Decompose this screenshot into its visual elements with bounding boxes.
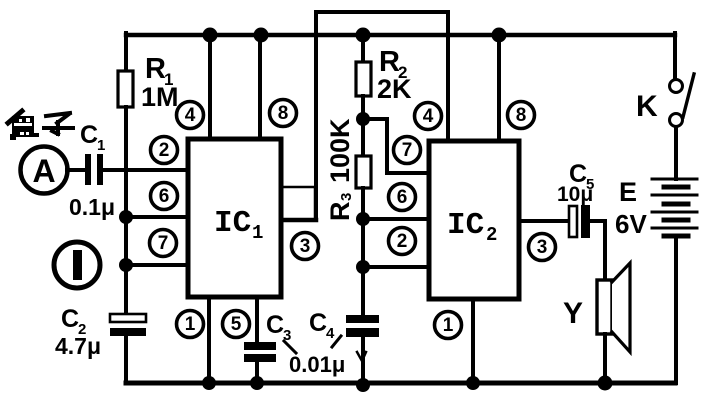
svg-text:R: R bbox=[325, 202, 355, 222]
capacitor C5 bbox=[569, 205, 590, 238]
wire to IC1 pin6 bbox=[126, 215, 188, 219]
svg-text:6V: 6V bbox=[615, 209, 647, 239]
wire pin3 stub upper bbox=[282, 187, 315, 220]
svg-text:2: 2 bbox=[159, 140, 170, 161]
wire C3 to ground bbox=[255, 361, 259, 383]
svg-text:6: 6 bbox=[159, 186, 170, 207]
svg-text:A: A bbox=[32, 153, 55, 189]
label C5 value 10u bbox=[557, 183, 593, 206]
svg-text:4: 4 bbox=[423, 106, 434, 127]
pin number 7 IC2 bbox=[394, 137, 421, 164]
svg-text:100K: 100K bbox=[325, 118, 355, 183]
wire top loop horizontal bbox=[316, 10, 448, 14]
svg-text:R: R bbox=[145, 53, 166, 85]
svg-text:8: 8 bbox=[278, 103, 289, 124]
label E value 6V bbox=[615, 209, 647, 239]
svg-text:E: E bbox=[619, 177, 637, 207]
wire battery to ground rail bbox=[674, 239, 678, 383]
wire bottom ground rail bbox=[126, 381, 675, 386]
label C3 C4 value 0.01u bbox=[289, 352, 345, 377]
node junction pin8 rail bbox=[254, 28, 269, 43]
svg-text:4: 4 bbox=[326, 325, 335, 342]
node junction C4 ground bbox=[356, 378, 370, 392]
label C1 value 0.1u bbox=[69, 194, 115, 220]
svg-text:10μ: 10μ bbox=[557, 183, 593, 206]
wire IC2 pin1 to ground bbox=[471, 299, 475, 383]
label Y bbox=[563, 297, 583, 330]
node junction pin6 net bbox=[356, 212, 370, 226]
node junction R2 rail bbox=[356, 28, 371, 43]
capacitor C1 bbox=[85, 154, 103, 185]
svg-text:1M: 1M bbox=[141, 82, 179, 112]
wire speaker to ground bbox=[603, 334, 607, 383]
wire top positive rail bbox=[126, 33, 675, 37]
node junction speaker ground bbox=[598, 376, 613, 391]
pin number 3 IC1 bbox=[292, 233, 319, 260]
wire R3 down to C4 bbox=[361, 188, 365, 315]
label C5 bbox=[569, 160, 594, 193]
svg-text:1: 1 bbox=[97, 137, 105, 154]
pin number 3 IC2 bbox=[529, 234, 556, 261]
svg-text:IC: IC bbox=[214, 206, 251, 241]
label E bbox=[619, 177, 637, 207]
pin number 2 IC1 bbox=[151, 137, 178, 164]
svg-text:IC: IC bbox=[447, 208, 484, 243]
svg-text:C: C bbox=[266, 311, 284, 339]
label K bbox=[636, 90, 658, 123]
svg-text:4.7μ: 4.7μ bbox=[55, 333, 101, 359]
wire C1 to IC1 pin2 bbox=[103, 168, 188, 172]
capacitor C3 bbox=[244, 342, 276, 362]
svg-text:2K: 2K bbox=[377, 74, 412, 104]
capacitor C4 bbox=[346, 315, 379, 337]
wire left vertical R1 to C2 bbox=[124, 107, 128, 315]
wire C5 to speaker bbox=[590, 221, 605, 280]
node junction IC2 pin8 rail bbox=[492, 28, 507, 43]
pin number 2 IC2 bbox=[389, 228, 416, 255]
node junction pin2 net bbox=[356, 260, 370, 274]
node junction pin4 rail bbox=[203, 28, 218, 43]
wire IC2 pin3 to C5 bbox=[519, 219, 570, 223]
wire IC2 pin8 to rail bbox=[497, 35, 501, 141]
label IC1 bbox=[214, 206, 263, 244]
svg-text:1: 1 bbox=[443, 315, 454, 336]
pin number 8 IC2 bbox=[508, 102, 535, 129]
pin number 6 IC1 bbox=[151, 183, 178, 210]
svg-text:K: K bbox=[636, 90, 658, 123]
node junction IC2 pin1 ground bbox=[466, 376, 480, 390]
label C3 bbox=[266, 311, 291, 344]
label C2 bbox=[61, 305, 86, 338]
svg-text:7: 7 bbox=[158, 233, 169, 254]
wire junction to IC2 pin7 bbox=[363, 119, 429, 173]
wire rail to switch bbox=[673, 33, 677, 80]
label C1 bbox=[80, 121, 105, 154]
wire IC1 pin1 to ground bbox=[207, 297, 211, 383]
svg-text:3: 3 bbox=[537, 237, 548, 258]
label C4 bbox=[309, 309, 335, 342]
IC U2 box bbox=[429, 141, 519, 299]
IC U1 box bbox=[188, 139, 281, 297]
label leader line C3 bbox=[284, 341, 296, 353]
svg-text:1: 1 bbox=[185, 314, 196, 335]
svg-text:0.1μ: 0.1μ bbox=[69, 194, 115, 220]
resistor R1 bbox=[118, 71, 133, 107]
pin number 7 IC1 bbox=[150, 230, 177, 257]
pin number 4 IC2 bbox=[415, 103, 442, 130]
svg-text:6: 6 bbox=[397, 187, 408, 208]
terminal A bbox=[21, 147, 68, 194]
pin number 5 IC1 bbox=[223, 311, 250, 338]
pin number 8 IC1 bbox=[270, 100, 297, 127]
wire loop down to IC2 pin4 bbox=[446, 12, 450, 140]
label R2 bbox=[377, 46, 412, 104]
wire IC1 pin8 to rail bbox=[258, 35, 262, 137]
capacitor C2 bbox=[110, 314, 146, 336]
terminal touch plate bbox=[54, 242, 100, 288]
label IC2 bbox=[447, 208, 497, 246]
speaker Y bbox=[597, 263, 630, 352]
wire R2 to R3 bbox=[361, 96, 365, 156]
battery E bbox=[652, 179, 697, 236]
resistor R2 bbox=[356, 62, 371, 96]
svg-text:5: 5 bbox=[231, 314, 242, 335]
wire IC1 pin3 output bbox=[282, 218, 316, 223]
node junction pin7 left bbox=[119, 258, 133, 272]
svg-text:Y: Y bbox=[563, 297, 583, 330]
svg-text:0.01μ: 0.01μ bbox=[289, 352, 345, 377]
svg-text:2: 2 bbox=[486, 224, 497, 246]
pin number 6 IC2 bbox=[389, 184, 416, 211]
svg-text:4: 4 bbox=[185, 105, 196, 126]
wire rail to R2 bbox=[361, 33, 365, 62]
svg-text:7: 7 bbox=[402, 140, 413, 161]
wire left C2 to ground rail bbox=[124, 335, 128, 383]
svg-text:3: 3 bbox=[338, 193, 355, 201]
pin number 1 IC1 bbox=[177, 311, 204, 338]
label terminal kanji bbox=[8, 111, 73, 140]
svg-text:3: 3 bbox=[300, 236, 311, 257]
svg-text:1: 1 bbox=[252, 222, 263, 244]
node junction pin6 left bbox=[119, 210, 133, 224]
svg-text:C: C bbox=[61, 305, 79, 333]
label leader line C4 bbox=[332, 336, 341, 347]
node junction R2 R3 pin7 bbox=[356, 112, 370, 126]
wire terminal A to C1 bbox=[67, 168, 86, 172]
svg-text:2: 2 bbox=[397, 231, 408, 252]
label R1 bbox=[141, 53, 179, 112]
node junction pin1 ground bbox=[202, 376, 216, 390]
wire switch to battery bbox=[674, 127, 678, 179]
label C2 value 4.7u bbox=[55, 333, 101, 359]
node junction C3 ground bbox=[250, 376, 264, 390]
pin number 1 IC2 bbox=[435, 312, 462, 339]
wire to IC2 pin2 bbox=[363, 265, 429, 269]
label R3 100K rotated bbox=[325, 118, 355, 221]
svg-text:C: C bbox=[80, 121, 98, 149]
wire to IC1 pin7 bbox=[126, 263, 188, 267]
wire IC1 pin5 to C3 bbox=[255, 297, 259, 343]
svg-text:C: C bbox=[309, 309, 327, 337]
svg-text:8: 8 bbox=[516, 105, 527, 126]
wire pin3 riser to top loop bbox=[314, 12, 318, 220]
wire C4 to ground bbox=[361, 337, 365, 385]
pin number 4 IC1 bbox=[177, 102, 204, 129]
resistor R3 bbox=[356, 156, 371, 188]
stray tick mark bbox=[357, 352, 366, 361]
switch K bbox=[670, 74, 695, 127]
wire IC1 pin4 to rail bbox=[208, 35, 212, 137]
wire left rail upper segment bbox=[124, 33, 128, 71]
wire to IC2 pin6 bbox=[363, 217, 429, 221]
